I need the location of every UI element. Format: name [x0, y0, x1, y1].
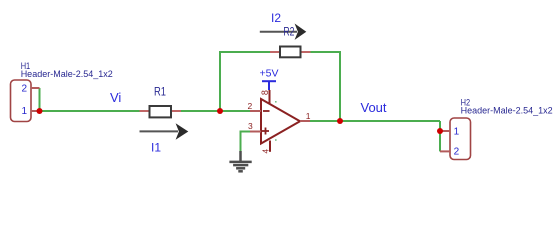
svg-text:R1: R1	[154, 85, 166, 99]
current arrow I2	[260, 24, 307, 40]
junction dot at output	[337, 118, 343, 124]
svg-text:1: 1	[306, 111, 311, 121]
wire R1 to op-amp	[181, 110, 251, 112]
svg-text:2: 2	[248, 101, 253, 111]
junction dot at H2	[437, 128, 443, 134]
svg-text:R2: R2	[283, 25, 294, 39]
junction dot at feedback left	[217, 108, 223, 114]
pin name speck V-	[275, 139, 277, 141]
wire feedback right vertical	[339, 52, 341, 121]
pin stub H2 pin2	[440, 150, 450, 152]
resistor R1	[140, 110, 150, 112]
svg-text:1: 1	[454, 126, 460, 137]
svg-text:1: 1	[22, 106, 28, 117]
svg-text:8: 8	[260, 90, 270, 95]
power flag +5V	[260, 68, 279, 91]
header H2	[450, 118, 471, 160]
wire H1 pin2 to pin1 vertical	[39, 88, 41, 111]
svg-text:I2: I2	[271, 11, 281, 25]
junction dot at H1	[37, 108, 43, 114]
pin stub op-amp pin3	[250, 131, 261, 133]
op-amp plus	[262, 128, 269, 135]
svg-text:Header-Male-2.54_1x2: Header-Male-2.54_1x2	[461, 106, 553, 116]
svg-text:4: 4	[261, 149, 271, 154]
wire output horizontal	[310, 120, 440, 122]
pin stub op-amp pin4	[269, 141, 271, 152]
pin stub H1 pin1	[31, 110, 40, 112]
op-amp minus	[263, 110, 270, 112]
svg-text:3: 3	[248, 121, 253, 131]
wire op-amp pin3 to ground	[241, 132, 251, 152]
wire feedback top left	[219, 51, 270, 53]
svg-text:+5V: +5V	[260, 68, 279, 80]
svg-text:2: 2	[22, 83, 28, 94]
wire H2 drop vertical	[439, 121, 441, 151]
ground	[229, 151, 251, 171]
svg-text:Header-Male-2.54_1x2: Header-Male-2.54_1x2	[21, 69, 113, 79]
pin stub H2 pin1	[440, 130, 450, 132]
wire feedback left vertical	[219, 52, 221, 111]
svg-text:2: 2	[454, 147, 460, 158]
op-amp U1	[261, 99, 300, 144]
pin stub op-amp pin2	[250, 110, 261, 112]
resistor R2	[270, 51, 280, 53]
pin name speck V+	[275, 101, 277, 103]
pin stub op-amp pin8	[269, 90, 271, 104]
current arrow I1	[140, 123, 189, 140]
wire input main horizontal	[40, 110, 140, 112]
svg-text:Vi: Vi	[110, 90, 121, 105]
pin stub H1 pin2	[31, 87, 40, 89]
header H1	[11, 80, 32, 122]
svg-text:Vout: Vout	[361, 100, 387, 115]
pin stub op-amp pin1	[300, 120, 310, 122]
wire R2 to right vertical	[311, 51, 342, 53]
svg-text:I1: I1	[151, 141, 161, 155]
